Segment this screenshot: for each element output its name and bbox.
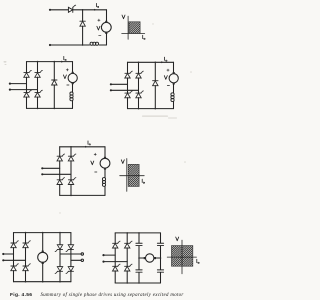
junction dots [82,9,84,11]
wire diode branch [82,10,84,21]
wire left leg [127,62,129,73]
wire top-right [73,9,107,11]
arrow Ia [85,146,87,148]
thyristor T1 [24,70,32,77]
thyristor T7 reversed [55,267,63,274]
axis Ia Q1 [122,32,145,34]
thyristor T2 [136,71,144,78]
wire armature left [139,257,145,259]
wire supply 2 [42,173,71,175]
label Ia Q2 [142,179,144,183]
label minus M4 [95,171,97,173]
wire 3rd leg [59,233,61,245]
wire top bus [115,232,160,234]
thyristor T4 [68,178,76,185]
switch leg A [138,233,140,243]
wire supply 4 [71,259,81,261]
label V M1 [97,26,100,30]
wire supply 2 [104,261,128,263]
label Ia Q3 [197,259,199,263]
thyristor T2 [35,70,43,77]
junction dots [25,232,27,234]
thyristor T3 [113,264,121,271]
wire left leg [114,233,116,243]
label V Q1 [122,15,125,19]
motor M2 [68,73,77,82]
label V M4 [91,161,94,165]
junction dots [138,62,140,64]
junction dots [70,146,72,148]
contact K3 [157,242,163,244]
axis V Q1 [127,16,129,39]
thyristor T1 [57,154,65,161]
thyristor T4 [136,91,144,98]
wire top bus [14,232,71,234]
junction dots [37,61,39,63]
wire bottom bus [60,194,105,196]
wire diode leg [154,62,156,80]
motor M4 [100,158,110,168]
label V M2 [63,75,66,79]
svg-text:Fig. 4.56: Fig. 4.56 [10,292,32,298]
switch leg B [160,233,162,243]
thyristor T8 reversed [66,267,74,274]
hatched square Q3 [172,246,193,267]
wire supply 1 [42,167,59,169]
inductor L3 [171,93,174,102]
label plus M4 [94,153,96,155]
wire supply 1 [10,83,27,85]
thyristor T3 [11,264,19,271]
thyristor T4 [35,90,43,97]
thyristor T6 reversed [66,245,74,252]
motor M3 [169,74,178,83]
terminal S1 [41,167,43,169]
junction dots [126,232,128,234]
wire supply 1 [111,83,128,85]
label Ia [88,141,90,145]
wire top bus [60,146,105,148]
contact K1 [136,242,142,244]
wire bottom bus [14,281,71,283]
terminal S2 [2,259,4,261]
terminal S1 [2,253,4,255]
inductor L1 [90,42,99,45]
terminal S1 [102,254,104,256]
label plus M3 [167,69,169,71]
terminal P2 [49,44,51,46]
thyristor T3 [57,178,65,185]
inductor L2 [70,92,73,101]
thyristor T4 [23,264,31,271]
label Ia [165,57,167,61]
wire top bus [27,61,73,63]
label V Q3 [176,237,179,241]
label V Q2 [121,160,124,164]
wire top bus [128,61,174,63]
thyristor T1 [125,71,133,78]
wire inductor bottom [72,101,74,109]
wire armature right [155,257,161,259]
contact K2 [136,269,142,271]
label Ia [96,3,98,7]
wire motor to inductor [173,85,175,93]
thyristor T2 [68,154,76,161]
wire supply 2 [3,259,25,261]
wire supply 1 [3,253,13,255]
wire bottom bus [115,282,160,284]
terminal S3 [81,253,83,255]
motor M6 [146,254,154,262]
freewheeling diode D1 [80,21,85,26]
wire motor top [173,62,175,72]
label Ia Q1 [143,35,145,39]
hatched square Q1 [129,22,140,34]
wire left leg [59,147,61,156]
axis V Q2 [126,159,128,192]
label minus M3 [167,84,169,86]
freewheeling diode D3 [153,81,158,86]
contact K4 [157,269,163,271]
terminal S2 [41,173,43,175]
wire 4th leg [70,233,72,245]
label V M3 [164,76,167,80]
terminal P1 [49,9,51,11]
motor M5 [38,252,48,262]
arrow Ia [94,9,96,11]
terminal S1 [9,83,11,85]
wire motor to inductor [72,84,74,92]
wire 2nd leg [126,233,128,243]
thyristor T1 [113,241,121,248]
wire left leg [13,233,15,243]
wire right leg [70,147,72,156]
wire 2nd leg [25,233,27,243]
wire left leg [26,62,28,73]
wire bottom bus [27,107,73,109]
label plus M1 [98,19,100,21]
thyristor T3 [24,90,32,97]
terminal S2 [9,89,11,91]
terminal S2 [102,261,104,263]
hatched rect Q2 [128,164,139,186]
wire motor bottom [106,34,108,45]
wire motor to inductor [104,170,106,178]
wire motor top [104,147,106,157]
thyristor T2 [125,241,133,248]
terminal S1 [110,83,112,85]
wire motor leg bottom [42,262,44,281]
freewheeling diode D2 [52,80,57,85]
wire motor top [72,62,74,72]
wire motor leg top [42,233,44,253]
wire right leg [37,62,39,73]
axis Ia Q3 [167,256,196,258]
wire supply 1 [104,254,116,256]
thyristor T1 [68,5,75,12]
terminal S2 [110,89,112,91]
wire bottom [50,44,90,46]
inductor L4 [102,178,105,187]
label minus M1 [99,35,101,37]
axis Ia Q2 [120,175,145,177]
wire inductor bottom [173,102,175,109]
thyristor T2 [23,241,31,248]
thyristor T3 [125,91,133,98]
wire supply 2 [10,89,38,91]
wire supply 3 [60,253,81,255]
wire diode leg [53,62,55,80]
wire right drop [106,10,108,21]
wire right leg [138,62,140,73]
axis V Q3 [181,240,183,274]
label minus M2 [67,84,69,86]
label plus M2 [66,69,68,71]
label Ia [64,56,66,60]
wire inductor bottom [104,186,106,195]
svg-text:Summary of single phase drives: Summary of single phase drives using sep… [41,293,184,298]
thyristor T4 [125,264,133,271]
thyristor T5 reversed [55,245,63,252]
wire bottom bus [128,108,174,110]
wire supply 2 [111,89,139,91]
arrow Ia [161,61,163,63]
motor M1 [101,22,111,32]
terminal S4 [81,259,83,261]
wire top-left [50,9,68,11]
arrow Ia [61,61,63,63]
thyristor T1 [11,241,19,248]
